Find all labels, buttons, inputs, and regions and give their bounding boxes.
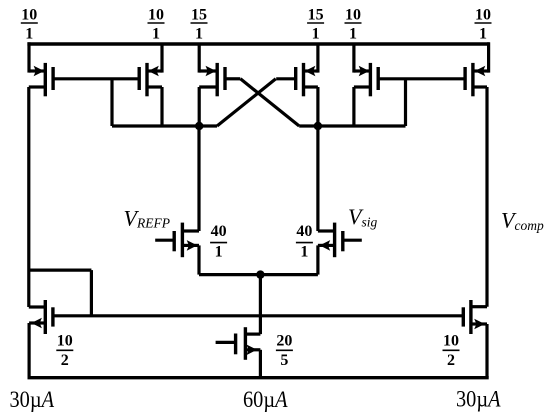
wire: cross-couple diagonal M4 gate to left node	[217, 79, 276, 126]
svg-text:5: 5	[280, 352, 288, 369]
wire: gate-line drop to right node	[404, 79, 407, 126]
wire: M2 drain drop to left node line	[160, 87, 163, 126]
wire: M9 diode link vertical to bias line	[90, 270, 93, 316]
wire: right node line	[318, 124, 406, 127]
transistor M1 PMOS 10/1	[44, 63, 47, 96]
svg-text:1: 1	[195, 26, 203, 43]
node: left drain node dot	[195, 122, 203, 130]
wire: gate-line drop to left node	[110, 79, 113, 126]
wire: top-right corner drop to M6 source	[487, 42, 490, 72]
transistor M4 PMOS 15/1 (cross-coupled)	[302, 63, 305, 96]
svg-text:1: 1	[25, 26, 33, 43]
wire: tail line joining input sources	[199, 273, 318, 276]
svg-text:2: 2	[447, 352, 455, 369]
svg-text:20: 20	[276, 333, 292, 350]
wire: top-left corner drop to M1 source	[27, 42, 30, 72]
transistor M10 NMOS 20/5 tail current source 60uA	[244, 327, 247, 360]
wire: ground bottom rail	[28, 376, 489, 379]
wire: M2 source drop from rail	[160, 44, 163, 73]
transistor M8 NMOS 40/1 input V_sig	[333, 223, 336, 258]
svg-text:10: 10	[57, 333, 73, 350]
wire: M7 source drop to tail	[197, 245, 200, 274]
svg-text:30µA: 30µA	[10, 387, 55, 412]
wire: tail node down to M10 drain (crosses bias line)	[259, 275, 262, 335]
transistor M9 NMOS 10/2 (30uA mirror, diode-connected)	[44, 300, 47, 334]
svg-text:10: 10	[345, 7, 361, 24]
wire: left rail (M1 drain down to bottom-left mirror)	[27, 87, 30, 307]
node: tail node dot	[256, 270, 264, 278]
wire: gate link M5-M6	[378, 77, 466, 80]
svg-text:1: 1	[479, 26, 487, 43]
wire: M3 drain drop to left node (dot)	[198, 87, 201, 126]
transistor M11 NMOS 10/2 (30uA mirror)	[469, 300, 472, 334]
svg-text:40: 40	[296, 223, 312, 240]
wire: right node down to M8 drain	[316, 126, 319, 231]
svg-text:10: 10	[21, 7, 37, 24]
wire: M4 source drop from rail	[316, 44, 319, 73]
transistor M7 NMOS 40/1 input V_REFP	[181, 223, 184, 258]
wire: gate link M1-M2	[53, 77, 139, 80]
wire: M3 source drop from rail	[198, 44, 201, 73]
svg-text:40: 40	[211, 223, 227, 240]
wire: right rail Vcomp output	[485, 87, 488, 307]
svg-text:1: 1	[152, 26, 160, 43]
wire: M4 drain drop to right node (dot)	[316, 87, 319, 126]
wire: left node line	[112, 124, 199, 127]
svg-text:30µA: 30µA	[456, 387, 501, 412]
wire: M10 source drop to ground rail	[259, 350, 262, 378]
svg-text:60µA: 60µA	[243, 387, 288, 412]
wire: M5 drain drop to right node line	[352, 87, 355, 126]
wire: M8 source drop to tail	[316, 245, 319, 274]
transistor M5 PMOS 10/1	[369, 63, 372, 96]
wire: M5 source drop from rail	[352, 44, 355, 73]
wire: M9 diode link horizontal	[29, 269, 92, 272]
svg-text:15: 15	[191, 7, 207, 24]
svg-text:10: 10	[443, 333, 459, 350]
transistor M2 PMOS 10/1	[145, 63, 148, 96]
svg-text:10: 10	[148, 7, 164, 24]
svg-text:1: 1	[349, 26, 357, 43]
transistor M3 PMOS 15/1 (cross-coupled)	[215, 63, 218, 96]
svg-text:1: 1	[300, 243, 308, 260]
wire: left node down to M7 drain	[197, 126, 200, 231]
svg-text:1: 1	[215, 243, 223, 260]
node: right drain node dot	[314, 122, 322, 130]
wire: M11 source drop to ground rail	[485, 324, 488, 378]
wire: M9 source drop to ground rail	[28, 323, 31, 378]
transistor M6 PMOS 10/1 (output mirror)	[471, 63, 474, 96]
wire: VDD top rail	[27, 42, 489, 45]
svg-text:10: 10	[475, 7, 491, 24]
wire: cross-couple diagonal M3 gate to right node	[240, 79, 299, 126]
svg-text:15: 15	[308, 7, 324, 24]
svg-text:2: 2	[61, 352, 69, 369]
wire: bias line joining M9 and M11 gates	[53, 314, 463, 317]
svg-text:1: 1	[312, 26, 320, 43]
